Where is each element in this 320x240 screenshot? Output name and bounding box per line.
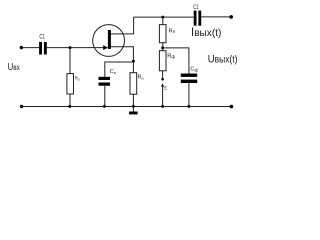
svg-text:Cи: Cи [110,69,116,75]
wire: output cap to output terminal [201,16,230,18]
node: Cf on rail [187,105,190,108]
node B: Rn/Rf/Cf junction [161,46,164,49]
svg-text:Uвх: Uвх [8,62,21,73]
wire: Rn top stub [162,17,164,25]
svg-text:Uвых(t): Uвых(t) [208,53,238,65]
wire: bottom rail [22,106,230,108]
svg-text:Rи: Rи [138,75,144,81]
resistor Ri [130,73,137,95]
node C: source junction [132,60,135,63]
resistor Rz [67,74,74,94]
wire: source lead to corner [111,47,133,62]
wire: source junction to Ri [132,61,134,72]
wire: C1 to gate junction [47,47,70,49]
wire: top supply wire to output cap [134,16,194,18]
node A: gate junction [69,46,72,49]
resistor Rn [159,25,166,43]
capacitor C1 (input) [39,42,47,55]
node: output top terminal [229,15,233,19]
node: Rz on rail [68,105,71,108]
wire: Rf top stub [162,48,164,51]
wire: Rn bottom stub [162,43,164,48]
transistor VT1 circle [93,25,125,57]
svg-text:Rф: Rф [167,53,175,59]
wire: Ci to rail [104,86,106,107]
arrow: supply E arrowhead (up) [161,83,164,86]
arrow: gate arrowhead [103,45,108,50]
node: top wire / Rn junction [161,16,164,19]
wire: Ri to rail [132,94,134,106]
node: supply on rail [161,105,164,108]
node: input top terminal [20,46,23,49]
node: Ci on rail [103,105,106,108]
wire: input terminal to C1 [21,47,39,49]
svg-text:Iвых(t): Iвых(t) [191,25,221,39]
svg-text:Cф: Cф [190,67,198,73]
svg-text:Rз: Rз [75,76,80,82]
ground [129,112,138,115]
transistor VT1 channel bar [108,30,111,49]
svg-text:C1: C1 [39,34,45,41]
wire: source junction left to Ci [105,62,134,77]
node: input bottom terminal [20,105,23,108]
node: output bottom terminal [230,105,234,109]
wire: Rf bottom stub with end dot [162,71,164,79]
wire: Rz to rail [69,94,71,106]
wire: gate junction to transistor gate (with arrow) [70,47,104,49]
capacitor Cf [181,74,197,84]
wire: drain lead inside/outside circle [111,17,134,34]
node: supply terminal dot [161,78,164,81]
wire: ground stub [132,106,134,111]
wire: node B to Cf [163,48,189,74]
svg-text:C1: C1 [193,5,199,11]
wire: supply lead down to rail [162,86,164,107]
wire: Cf to rail [188,83,190,106]
capacitor C1 (output) [194,11,202,26]
resistor Rf [159,51,166,71]
capacitor Ci [99,77,111,86]
svg-text:Rн: Rн [169,28,176,34]
node: Ri on rail / ground [132,105,135,108]
svg-text:E: E [164,86,167,91]
wire: gate junction down to Rz [69,48,71,74]
